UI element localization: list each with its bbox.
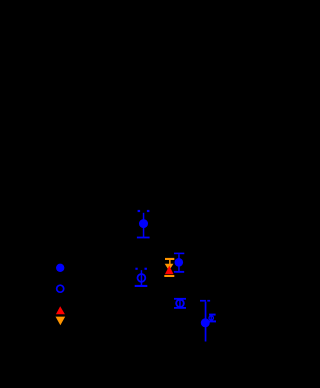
errorbar G: bottom cap <box>209 320 216 322</box>
legend marker: open blue circle <box>57 285 64 292</box>
errorbar F: top cap right fragment <box>207 300 210 302</box>
errorbar G: top cap <box>209 314 216 316</box>
legend marker: red up-triangle <box>56 306 65 314</box>
errorbar E: bottom cap <box>174 307 186 309</box>
errorbar C (orange): bottom cap <box>164 275 174 277</box>
errorbar F: filled blue circle marker <box>201 318 210 327</box>
errorbar A: vertical stem <box>143 213 145 237</box>
errorbar F: top cap left fragment <box>200 300 206 302</box>
errorbar B: vertical stem <box>141 270 143 285</box>
errorbar G: vertical stem <box>211 315 212 321</box>
errorbar B: top cap right fragment <box>145 268 147 270</box>
errorbar C (orange): top cap <box>165 258 174 260</box>
errorbar E: top cap <box>174 298 186 300</box>
errorbar E: open blue circle marker <box>176 300 184 308</box>
errorbar C: orange down-triangle marker <box>165 264 174 271</box>
errorbar A: bottom cap <box>137 237 150 239</box>
errorbar E: vertical stem <box>179 300 181 307</box>
errorbar A: top cap right fragment <box>147 210 150 212</box>
errorbar C: red up-triangle marker <box>165 266 174 275</box>
errorbar C (orange): stem <box>169 260 171 264</box>
errorbar A: filled blue circle marker <box>139 219 148 228</box>
errorbar D: vertical stem <box>178 254 180 271</box>
errorbar B: bottom cap <box>135 285 148 287</box>
errorbar A: top cap left fragment <box>138 210 141 212</box>
errorbar B: open blue circle marker <box>138 274 146 282</box>
legend marker: orange down-triangle <box>56 317 66 326</box>
errorbar F: long vertical stem <box>205 302 207 342</box>
errorbar G: open blue circle marker <box>209 316 213 320</box>
errorbar D: top cap <box>174 253 184 255</box>
errorbar D: bottom cap <box>174 271 184 273</box>
errorbar D: filled blue circle marker <box>175 258 184 267</box>
errorbar B: top cap left fragment <box>135 268 137 270</box>
legend marker: filled blue circle <box>56 264 64 272</box>
